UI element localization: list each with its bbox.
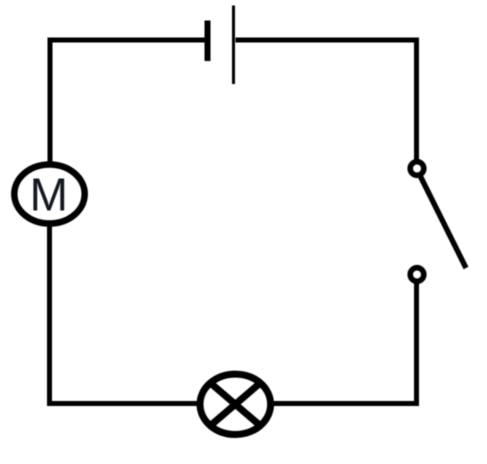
wire: right vertical from switch bottom contact + bottom-right horizontal to lamp xyxy=(274,283,417,404)
wire: bottom-left horizontal from lamp + left vertical up to motor bottom xyxy=(50,226,198,404)
switch S1 open blade arm xyxy=(421,177,467,269)
lamp L1 cross diagonal 1 xyxy=(210,383,260,426)
motor U1 circle xyxy=(14,165,84,224)
switch S1 top contact terminal circle xyxy=(410,162,424,176)
svg-text:M: M xyxy=(30,169,68,221)
switch S1 bottom contact terminal circle xyxy=(410,268,424,282)
lamp L1 cross diagonal 2 xyxy=(210,383,260,426)
wire: top-right horizontal from battery + right vertical down to switch xyxy=(236,40,417,160)
wire: left vertical (motor top to top-left corner) + top-left horizontal to battery xyxy=(50,40,205,163)
battery B1 short thick plate (negative terminal) xyxy=(205,21,211,62)
motor U1 label M xyxy=(30,169,68,221)
lamp L1 circle xyxy=(200,374,271,434)
battery B1 long thin plate (positive terminal) xyxy=(232,6,235,85)
